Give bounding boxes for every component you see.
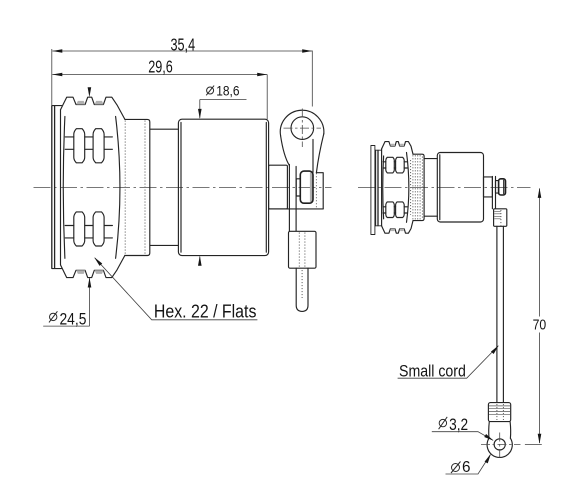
knurl flat shading bottom xyxy=(76,270,103,274)
washer xyxy=(296,179,300,196)
knurled coupling nut body xyxy=(61,97,125,277)
knurl rib barrels upper xyxy=(65,129,112,163)
dimension 29,6 xyxy=(52,56,267,119)
bottom crimp block xyxy=(488,403,510,422)
dimension d3,2 xyxy=(432,416,495,442)
svg-text:29,6: 29,6 xyxy=(148,56,173,76)
dimension 35,4 xyxy=(52,35,313,107)
crimp block left view xyxy=(289,231,317,268)
svg-text:35,4: 35,4 xyxy=(171,35,196,55)
svg-text:18,6: 18,6 xyxy=(216,83,239,98)
ring lug strap verticals xyxy=(289,140,313,232)
right recess groove xyxy=(424,159,437,217)
right knurl barrels lower xyxy=(383,202,407,218)
ring lug head xyxy=(280,110,324,172)
right rear band xyxy=(413,154,424,220)
right screw knob xyxy=(499,179,506,195)
small cord lines xyxy=(497,226,504,402)
bottom ring crosshair xyxy=(481,443,521,445)
right crimp block xyxy=(494,209,507,227)
end stub xyxy=(269,165,288,209)
main cylinder (d18.6) xyxy=(178,119,268,255)
right end stub xyxy=(484,177,493,197)
centerline right view xyxy=(358,186,531,188)
right knurl barrels upper xyxy=(383,157,407,173)
label Hex. 22 / Flats xyxy=(93,256,258,321)
dimension d24,5 xyxy=(43,87,91,328)
right knurl body xyxy=(382,142,413,234)
right flange xyxy=(371,146,382,235)
knurl rib barrels lower xyxy=(65,212,112,246)
label Small cord xyxy=(398,344,501,380)
dimension d6 xyxy=(446,453,493,476)
svg-text:3,2: 3,2 xyxy=(449,416,468,434)
rear bracket xyxy=(316,173,323,209)
knurl flat shading top xyxy=(76,101,103,105)
right intersection arc xyxy=(407,153,409,223)
svg-text:Hex. 22 / Flats: Hex. 22 / Flats xyxy=(154,300,257,321)
dimension 70 xyxy=(525,188,546,445)
nut rear cylinder intersection arc xyxy=(116,117,120,259)
centerline main view xyxy=(34,186,332,188)
bottom line of end assembly xyxy=(269,208,324,210)
right strap lines xyxy=(492,177,495,209)
svg-text:6: 6 xyxy=(462,459,471,476)
dimension d18,6 xyxy=(198,83,247,265)
right washer xyxy=(496,181,499,194)
svg-text:70: 70 xyxy=(533,318,547,334)
svg-text:24,5: 24,5 xyxy=(60,310,87,329)
hidden edge at bracket xyxy=(315,173,317,208)
svg-text:Small cord: Small cord xyxy=(399,361,466,380)
cord end tube left view xyxy=(296,268,308,311)
flange (hex 22 rear face) xyxy=(52,106,62,269)
nut rear band hidden knurl lines xyxy=(124,121,126,255)
right knurl flats shading xyxy=(390,144,404,231)
recess groove section xyxy=(150,129,178,245)
ring lug head crosshair xyxy=(284,127,322,129)
bottom ring terminal xyxy=(487,422,512,458)
right main cylinder xyxy=(437,153,483,223)
nut rear band xyxy=(125,119,150,255)
screw knob xyxy=(310,172,313,202)
